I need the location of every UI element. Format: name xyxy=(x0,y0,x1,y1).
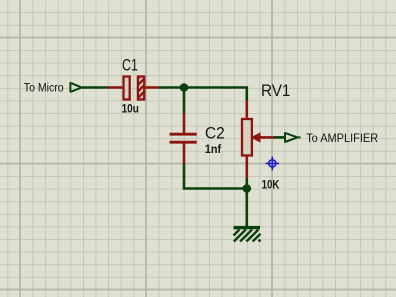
svg-text:To Micro: To Micro xyxy=(24,82,64,95)
svg-text:10K: 10K xyxy=(262,178,280,191)
svg-text:RV1: RV1 xyxy=(261,82,291,100)
svg-text:C1: C1 xyxy=(122,57,138,75)
svg-text:10u: 10u xyxy=(122,103,139,116)
svg-text:1nf: 1nf xyxy=(205,143,221,157)
svg-text:C2: C2 xyxy=(205,124,225,143)
svg-text:To AMPLIFIER: To AMPLIFIER xyxy=(306,131,378,145)
